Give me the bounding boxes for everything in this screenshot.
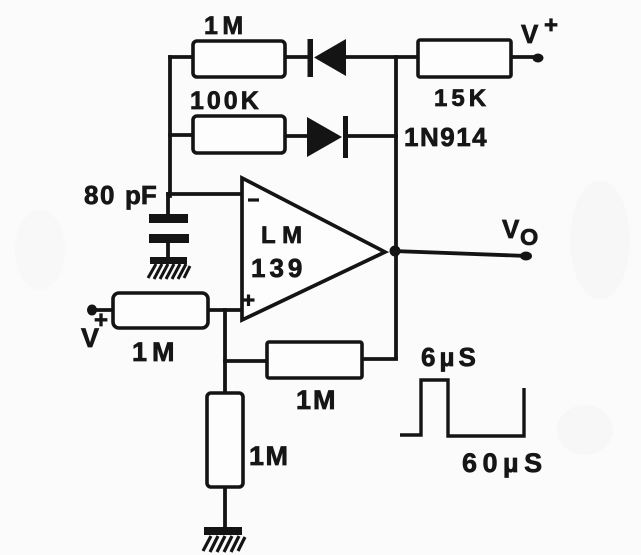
wire R6 to ground [223,487,227,527]
wire row1 R1 to D1 [285,55,308,59]
svg-text:+: + [544,12,558,39]
svg-text:60µS: 60µS [462,448,548,478]
wire inverting input [168,192,242,196]
wire row2 R2 to D2 [285,134,308,138]
op-amp U1 LM139 [242,178,385,320]
resistor 1M (vertical) [207,393,290,487]
wire noninverting input [208,308,242,312]
svg-text:V: V [521,19,539,49]
label V+ bottom left [81,307,108,353]
wire V+ terminal to R4 [93,308,113,312]
wire junction down [223,310,227,393]
svg-text:pF: pF [125,180,157,210]
diode D2 (1N914, pointing right) [307,116,348,158]
diode D1 (1N914, pointing left) [308,39,347,77]
wire capacitor bottom stub [166,243,170,257]
svg-text:139: 139 [251,253,306,283]
wire row1 left [170,55,193,59]
svg-text:1M: 1M [249,441,290,471]
ground (bottom) [203,527,245,552]
capacitor 80pF [149,214,189,243]
wire row1 D1 to R3 [347,55,418,59]
node V+ top terminal dot [533,54,544,63]
label V0 [502,214,538,250]
svg-text:1M: 1M [296,385,338,415]
wire R5 to feedback rail [362,357,396,361]
waveform pulse [400,380,524,436]
svg-text:1M: 1M [204,12,248,40]
resistor 15K [418,40,511,112]
wire capacitor top stub [166,194,170,214]
svg-text:6µS: 6µS [421,342,480,372]
svg-text:15K: 15K [434,85,490,112]
label V+ top right [521,12,558,49]
svg-text:O: O [520,224,538,250]
node output junction dot [390,246,401,257]
wire output [394,251,527,256]
resistor 1M (noninverting, horizontal) [113,293,208,367]
ground (capacitor) [148,257,190,279]
svg-text:80: 80 [84,180,116,210]
resistor 100K [190,87,285,153]
resistor 1M (feedback, horizontal) [267,342,362,415]
wire row2 D2 to feedback rail [348,134,396,138]
svg-text:1N914: 1N914 [404,122,488,152]
svg-text:V: V [502,214,520,244]
wire row2 left [170,133,193,137]
svg-text:1M: 1M [132,337,180,367]
wire feedback rail [394,57,398,358]
wire junction to R5 [225,359,267,363]
svg-text:100K: 100K [190,87,262,115]
node V+ bottom terminal dot [87,305,97,316]
wire row1 R3 to V+ terminal [511,55,536,59]
resistor 1M top [193,12,285,77]
svg-text:LM: LM [261,222,309,249]
wire left rail [168,57,172,196]
node output terminal dot [520,252,532,261]
svg-text:+: + [94,307,108,334]
